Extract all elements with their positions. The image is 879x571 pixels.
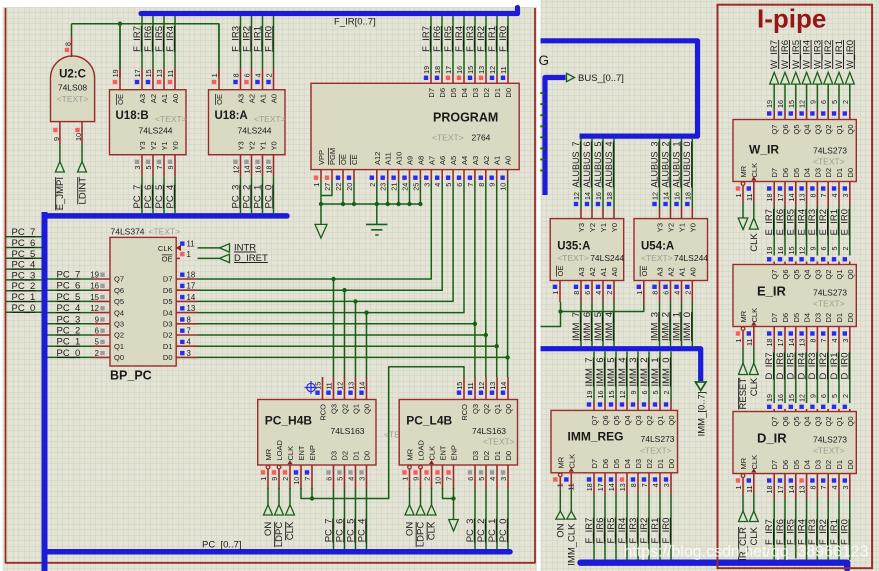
svg-text:19: 19 [111, 69, 120, 77]
U18:A pin A3 stub [240, 68, 242, 90]
svg-text:F_IR5: F_IR5 [154, 26, 165, 52]
svg-text:PC_3: PC_3 [12, 270, 36, 281]
svg-text:19: 19 [765, 247, 774, 255]
svg-text:Q3: Q3 [813, 270, 822, 280]
wire D_IR4 vertical [806, 352, 808, 404]
wire OE down to rail [342, 181, 344, 204]
W_IR pin CLK square (blue) [747, 186, 751, 190]
wire F_IR4 bus to PROGRAM D4 [463, 16, 465, 74]
svg-text:Q4: Q4 [114, 308, 124, 317]
svg-text:4: 4 [347, 477, 356, 481]
svg-text:11: 11 [166, 70, 175, 77]
svg-text:Y0: Y0 [610, 223, 619, 232]
svg-text:1: 1 [259, 477, 268, 481]
svg-text:<TEXT>: <TEXT> [57, 94, 89, 104]
W_IR pin D1 square [832, 186, 836, 190]
wire PC_1 to bottom bus [496, 489, 498, 549]
U18:A pin Y3 stub [240, 155, 242, 177]
wire Q7 to PC bus [48, 278, 94, 280]
PC_L4B pin D3 square (gray) [468, 470, 472, 474]
svg-text:<TEXT>: <TEXT> [149, 227, 181, 237]
svg-text:Q5: Q5 [792, 270, 801, 280]
U18:B wire A2 from bus [152, 16, 154, 68]
svg-text:12: 12 [90, 304, 99, 313]
wire F_IR4 to bottom bus [626, 494, 628, 560]
svg-text:8: 8 [651, 291, 660, 295]
IMM_REG pin Q6 stub [604, 402, 606, 411]
BP_PC pin Q7 stub [93, 278, 110, 280]
svg-text:PC_H4B: PC_H4B [265, 414, 313, 428]
svg-text:CLK: CLK [158, 244, 173, 253]
svg-text:ON: ON [263, 522, 274, 536]
wire pin9 to terminal [59, 145, 61, 162]
svg-text:D2: D2 [482, 88, 491, 98]
svg-text:7: 7 [155, 166, 164, 170]
grid minor lines middle/right panels [541, 0, 879, 571]
svg-text:19: 19 [765, 394, 774, 402]
svg-text:5: 5 [830, 394, 839, 398]
U18:A pin A2 stub [251, 68, 253, 90]
BP_PC pin CLK stub [176, 247, 180, 249]
svg-text:16: 16 [776, 394, 785, 402]
I-pipe sheet border [718, 5, 873, 569]
svg-text:7: 7 [819, 194, 828, 198]
pin stub A3 [580, 281, 582, 303]
svg-text:Q6: Q6 [114, 286, 124, 295]
svg-text:PC_7: PC_7 [323, 519, 334, 543]
terminal triangle CLK (D_IR) [749, 511, 758, 522]
svg-text:F_IR3: F_IR3 [807, 519, 818, 545]
PC_L4B pin MR square [402, 470, 406, 474]
svg-text:D3: D3 [330, 451, 339, 461]
svg-text:MR: MR [264, 448, 273, 460]
wire address pin x=398.6 down to rail [398, 181, 400, 204]
svg-text:22: 22 [334, 183, 343, 191]
PC_L4B pin RCO stub [463, 377, 465, 400]
svg-text:IMM_6: IMM_6 [595, 358, 606, 387]
BP_PC pin Q0 stub [93, 356, 110, 358]
wire E_IR2 vertical [827, 207, 829, 256]
wire PROGRAM A1 down to PC_L4B Q1 [496, 181, 498, 377]
wire E_IR CLK down [753, 348, 755, 364]
wire PC_4 down to PC bus [174, 177, 176, 213]
IMM_REG pin D4 stub [626, 473, 628, 494]
PROGRAM pin A4 stub [463, 170, 465, 181]
svg-text:18: 18 [765, 339, 774, 347]
node junction ground rail x=398.6 [396, 202, 400, 206]
W_IR pin D4 stub [806, 182, 808, 207]
wire PROGRAM A7 to BP_PC D7 [198, 181, 432, 279]
PROGRAM pin A2 stub [485, 170, 487, 181]
IMM_REG pin CLK stub [570, 473, 572, 490]
svg-text:D3: D3 [813, 460, 822, 470]
svg-text:15: 15 [787, 247, 796, 255]
terminal arrow W_IR4 [802, 72, 811, 84]
wire IMM_3 to IMM bus [659, 302, 661, 346]
svg-text:D1: D1 [835, 460, 844, 470]
svg-text:RESET: RESET [738, 378, 749, 410]
wire PC_0 to bottom bus [507, 489, 509, 549]
svg-text:IMM_7: IMM_7 [571, 312, 582, 341]
register IMM_REG 74LS273 box [551, 410, 678, 472]
D_IR pin D6 square [778, 478, 782, 482]
svg-text:W_IR7: W_IR7 [769, 40, 780, 69]
svg-text:D4: D4 [623, 459, 632, 469]
svg-text:8: 8 [187, 315, 191, 324]
svg-text:D6: D6 [163, 286, 173, 295]
svg-text:F_IR0: F_IR0 [498, 26, 509, 52]
svg-text:74LS244: 74LS244 [590, 253, 624, 263]
svg-text:18: 18 [605, 192, 614, 200]
svg-text:21: 21 [390, 183, 399, 191]
svg-text:10: 10 [292, 477, 301, 485]
PROGRAM pin D2 stub [485, 74, 487, 83]
IMM_REG pin Q1 square (blue) [653, 402, 657, 406]
W_IR pin D2 square [821, 186, 825, 190]
svg-text:8: 8 [572, 291, 581, 295]
E_IR top squares row [767, 257, 771, 261]
wire PC_H4B CLK to terminal [289, 488, 291, 505]
svg-text:D3: D3 [634, 459, 643, 469]
svg-text:Q0: Q0 [363, 404, 372, 414]
U18:B pin A0 stub [174, 68, 176, 90]
svg-text:20: 20 [345, 183, 354, 191]
wire D_IR MR down [742, 495, 744, 512]
wire PC_L4B MR to terminal [409, 488, 411, 505]
PC_L4B pin Q2 stub [485, 377, 487, 400]
svg-text:6: 6 [662, 291, 671, 295]
svg-text:8: 8 [64, 42, 73, 46]
PROGRAM pin A9 state square [402, 176, 406, 180]
svg-text:Q5: Q5 [114, 297, 124, 306]
svg-text:F_IR5: F_IR5 [443, 26, 454, 52]
wire F_IR1 to bus (right panel) [838, 499, 840, 561]
PC_H4B pin Q3 stub [333, 377, 335, 400]
svg-text:Y2: Y2 [149, 141, 158, 150]
wire IMM_0 to IMM bus [691, 302, 693, 346]
svg-text:3: 3 [499, 477, 508, 481]
wire BP_PC D0 horizontal [198, 356, 508, 358]
svg-text:D5: D5 [163, 297, 173, 306]
svg-text:PC_2: PC_2 [476, 519, 487, 543]
PC_H4B pin MR square [261, 470, 265, 474]
svg-text:E_IR: E_IR [757, 284, 787, 299]
svg-text:U2:C: U2:C [59, 69, 86, 81]
U2:C pin 8 stub [71, 36, 73, 57]
BP_PC pin D0 stub [176, 356, 197, 358]
svg-text:1: 1 [312, 183, 321, 187]
svg-text:E_IR1: E_IR1 [829, 209, 840, 235]
svg-text:CLK: CLK [749, 377, 760, 396]
svg-text:BP_PC: BP_PC [110, 369, 152, 383]
IMM_REG pin D2 square [642, 477, 646, 481]
BP_PC pin 11 state square (blue) [180, 241, 184, 245]
D_IR top squares row [767, 405, 771, 409]
node junction ground rail x=354 [352, 202, 356, 206]
svg-text:9: 9 [808, 247, 817, 251]
BP_PC pin Q1 stub [93, 345, 110, 347]
U18:A pin OE stub [218, 68, 220, 90]
PC_L4B pin D2 stub [485, 465, 487, 489]
PROGRAM pin D1 stub [496, 74, 498, 83]
PC_L4B pin Q3 stub [474, 377, 476, 400]
U18:B pin Y0 stub [174, 155, 176, 177]
U18:B pin Y1 state square (gray) [157, 160, 161, 164]
IMM_REG pin D3 square [631, 477, 635, 481]
svg-text:23: 23 [379, 183, 388, 191]
pin stub A0 [613, 281, 615, 303]
svg-text:12: 12 [336, 382, 345, 390]
PROGRAM pin D6 stub [441, 74, 443, 83]
E_IR pin D5 square (blue) [789, 331, 793, 335]
svg-text:12: 12 [477, 382, 486, 390]
svg-text:CLK: CLK [427, 521, 438, 540]
svg-text:<TEXT>: <TEXT> [813, 446, 845, 456]
wire OE net horizontal [72, 24, 219, 78]
svg-text:U18:B: U18:B [116, 110, 149, 122]
ground symbol stem [376, 204, 378, 224]
svg-text:F_IR3: F_IR3 [465, 26, 476, 52]
PC_L4B pin MR stub [409, 469, 411, 489]
PROGRAM pin OE state square [336, 176, 340, 180]
wire PROGRAM A5 to BP_PC D5 [198, 181, 454, 301]
PROGRAM pin A8 stub [419, 170, 421, 181]
svg-text:Q1: Q1 [835, 417, 844, 427]
IMM_REG pin Q2 stub [648, 402, 650, 411]
terminal triangle LDPC under PC_H4B [275, 505, 284, 515]
D_IR pin MR stub [742, 478, 744, 495]
E_IR pin D5 stub [795, 327, 797, 352]
D_IR pin D3 square [810, 478, 814, 482]
D_IR pin D0 square [843, 478, 847, 482]
svg-text:E_JMPI: E_JMPI [55, 177, 66, 210]
W_IR clock arrow [751, 177, 756, 181]
PC_H4B pin Q2 stub [344, 377, 346, 400]
svg-text:PC_2: PC_2 [12, 281, 36, 292]
svg-text:W_IR6: W_IR6 [780, 40, 791, 69]
wire PC_L4B CLK to terminal [431, 488, 433, 505]
U18:B wire A1 from bus [163, 16, 165, 68]
PC_H4B pin CLK square [283, 470, 287, 474]
BP_PC pin Q6 state square (gray) [100, 284, 104, 288]
wire IMM_3 bus to IMM_REG [637, 352, 639, 402]
svg-text:9: 9 [488, 183, 497, 187]
terminal INTR triangle [220, 244, 230, 252]
svg-text:<TEXT>: <TEXT> [254, 114, 286, 124]
U18:A wire OE up [218, 24, 220, 68]
svg-text:4: 4 [433, 183, 442, 187]
IMM_REG pin D0 stub [670, 473, 672, 494]
svg-text:Q5: Q5 [792, 125, 801, 135]
svg-text:74LS163: 74LS163 [331, 426, 365, 436]
svg-text:14: 14 [187, 293, 196, 302]
svg-text:8: 8 [808, 486, 817, 490]
pin square A1 (blue) [674, 285, 678, 289]
PROGRAM pin VPP state square [314, 176, 318, 180]
svg-text:D4: D4 [803, 313, 812, 323]
W_IR pin Q7 stub [773, 110, 775, 120]
svg-text:Q1: Q1 [493, 404, 502, 414]
svg-text:G: G [539, 53, 550, 68]
node junction Q1/D5 [353, 299, 357, 303]
svg-text:18: 18 [187, 271, 196, 280]
pin stub A1 [681, 281, 683, 303]
pin stub Y3 [659, 208, 661, 219]
svg-text:13: 13 [798, 486, 807, 494]
wire IMM_6 to IMM bus [591, 302, 593, 346]
node junction ground rail x=420.4 [418, 202, 422, 206]
U18:A pin Y1 stub [262, 155, 264, 177]
IMM_REG pin D4 square [620, 477, 624, 481]
terminal triangle CLK under PC_H4B [286, 505, 295, 515]
svg-text:Q1: Q1 [352, 404, 361, 414]
svg-text:IMM_2: IMM_2 [660, 312, 671, 341]
svg-text:PC_6: PC_6 [143, 185, 154, 209]
svg-text:F_IR1: F_IR1 [829, 519, 840, 545]
svg-text:13: 13 [477, 66, 486, 74]
BP_PC pin D6 square (blue) [180, 284, 184, 288]
bus entry tick 0 [540, 92, 545, 94]
wire OE to D_IRET terminal [198, 257, 220, 259]
node junction A3/D3 [473, 322, 477, 326]
node junction ENT/ENP PC_H4B [310, 496, 314, 500]
wire PC_H4B LOAD to terminal [278, 488, 280, 505]
PC_L4B clock arrow [429, 460, 434, 464]
svg-text:Q0: Q0 [846, 417, 855, 427]
pin square A3 (blue) [574, 285, 578, 289]
BP_PC pin Q1 state square (gray) [100, 340, 104, 344]
D_IR pin D3 stub [816, 474, 818, 499]
PC_L4B pin D0 square (gray) [501, 470, 505, 474]
svg-text:ALUBUS_2: ALUBUS_2 [660, 142, 670, 188]
D_IR pin D0 stub [849, 474, 851, 499]
svg-text:A1: A1 [259, 94, 268, 103]
PROGRAM pin A0 stub [507, 170, 509, 181]
svg-text:Q4: Q4 [803, 125, 812, 135]
svg-text:A3: A3 [656, 267, 665, 276]
svg-text:F_IR4: F_IR4 [165, 26, 176, 52]
IMM_REG pin Q7 stub [593, 402, 595, 411]
svg-text:E_IR0: E_IR0 [840, 209, 851, 235]
svg-text:25: 25 [411, 183, 420, 191]
svg-text:PC_4: PC_4 [165, 185, 176, 209]
svg-text:PC_0: PC_0 [12, 303, 36, 314]
PC_H4B pin MR stub [267, 469, 269, 489]
wire PC_3 to bottom bus [474, 489, 476, 549]
left sheet border (dark red) [6, 8, 536, 563]
W_IR pin D5 square [789, 186, 793, 190]
wire PROGRAM A2 down to PC_L4B Q2 [485, 181, 487, 377]
svg-text:ENP: ENP [450, 445, 459, 460]
svg-text:PC_1: PC_1 [252, 185, 263, 209]
svg-text:F_IR5: F_IR5 [606, 518, 617, 544]
svg-text:<TEXT>: <TEXT> [640, 446, 672, 456]
register E_IR 74LS273 box [733, 265, 856, 327]
svg-text:7: 7 [640, 483, 649, 487]
svg-text:Q7: Q7 [770, 270, 779, 280]
BP_PC pin Q5 stub [93, 300, 110, 302]
svg-text:F_IR1: F_IR1 [650, 518, 661, 544]
U18:B pin A3 stub [141, 68, 143, 90]
node junction ground rail x=376.8 [375, 202, 379, 206]
D_IR pin D1 stub [838, 474, 840, 499]
svg-text:74LS244: 74LS244 [674, 253, 708, 263]
terminal triangle ON under PC_L4B [405, 505, 414, 515]
svg-text:15: 15 [90, 293, 99, 302]
svg-text:IMM_4: IMM_4 [604, 312, 615, 341]
svg-text:12: 12 [798, 247, 807, 255]
svg-text:10: 10 [499, 183, 508, 191]
PC_L4B pin D1 square (gray) [490, 470, 494, 474]
E_IR pin D4 stub [806, 327, 808, 352]
svg-text:6: 6 [819, 394, 828, 398]
svg-text:24: 24 [401, 183, 410, 191]
wire F_IR7 to bus (right panel) [773, 499, 775, 561]
svg-text:ALUBUS_6: ALUBUS_6 [582, 142, 592, 188]
svg-text:12: 12 [572, 192, 581, 200]
svg-text:Y0: Y0 [688, 223, 697, 232]
wire PC_0 stub from sheet edge [6, 311, 42, 313]
svg-text:Q6: Q6 [601, 416, 610, 426]
D_IR pin CLK stub [753, 474, 755, 495]
IMM_REG pin MR square (red) [553, 477, 557, 481]
terminal triangle ON (IMM_REG) [556, 511, 565, 519]
counter PC_H4B 74LS163 box [258, 400, 376, 466]
svg-text:12: 12 [232, 166, 241, 174]
svg-text:CE: CE [350, 155, 359, 165]
terminal arrow W_IR2 [824, 72, 833, 84]
PC_L4B pin Q1 square (blue) [490, 391, 494, 395]
svg-text:18: 18 [265, 166, 274, 174]
svg-text:OE: OE [162, 255, 173, 264]
svg-text:A5: A5 [449, 156, 458, 165]
bus PC upper horizontal [45, 213, 288, 219]
svg-text:2: 2 [605, 291, 614, 295]
E_IR pin D6 stub [784, 327, 786, 352]
svg-text:IMM_3: IMM_3 [628, 358, 639, 387]
svg-text:PC_5: PC_5 [345, 519, 356, 543]
PROGRAM pin D1 state square [490, 76, 494, 80]
D_IR pin D2 stub [827, 474, 829, 499]
svg-text:19: 19 [90, 271, 99, 280]
svg-text:RCO: RCO [319, 404, 328, 421]
svg-text:3: 3 [187, 349, 191, 358]
node junction ground rail x=387.7 [386, 202, 390, 206]
PC_L4B pin LOAD square [413, 470, 417, 474]
svg-text:D4: D4 [460, 88, 469, 98]
svg-text:D5: D5 [449, 88, 458, 98]
node junction A2/D2 [484, 333, 488, 337]
svg-text:13: 13 [798, 339, 807, 347]
svg-text:16: 16 [455, 66, 464, 74]
svg-text:F_IR7: F_IR7 [584, 518, 595, 544]
svg-text:7: 7 [303, 477, 312, 481]
E_IR pin MR square (red) [736, 331, 740, 335]
svg-text:Q0: Q0 [846, 125, 855, 135]
svg-text:8: 8 [477, 183, 486, 187]
PC_L4B pin Q1 stub [496, 377, 498, 400]
wire PROGRAM A4 to BP_PC D4 [198, 181, 465, 313]
wire PC_H4B ENP down [311, 488, 313, 499]
svg-text:E_IR5: E_IR5 [786, 209, 797, 235]
wire F_IR1 to bottom bus [659, 494, 661, 560]
D_IR pin D7 stub [773, 474, 775, 499]
svg-text:MR: MR [739, 165, 748, 177]
PC_L4B pin MR bubble [408, 465, 412, 469]
PROGRAM pin A3 state square [468, 176, 472, 180]
svg-text:D4: D4 [163, 308, 173, 317]
svg-text:11: 11 [466, 382, 475, 389]
